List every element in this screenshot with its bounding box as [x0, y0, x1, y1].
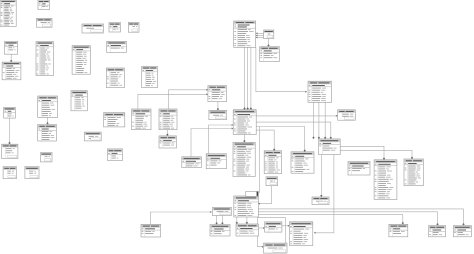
wire box36 to box40	[340, 150, 412, 159]
arrow box35 to box36 b	[318, 137, 320, 139]
wire box54 to box53	[150, 212, 211, 224]
arrow box46 to box50	[262, 246, 264, 248]
arrow box54 to box53	[210, 211, 212, 213]
table T43 TB_OP_STOCK	[264, 151, 281, 174]
wire box33 to box30	[209, 125, 234, 154]
arrow box20 to box30 c	[250, 107, 252, 109]
arrow box27 to box28	[206, 89, 208, 91]
table T11 TB_CM_MBR_HIST	[38, 125, 57, 142]
wire box51 to box47	[259, 227, 265, 229]
wire box45 to box46	[258, 186, 271, 204]
table T8 TB_CM_AUTH_MENU	[2, 62, 21, 80]
table T58 TB_OP_SHIP_LOG	[453, 226, 471, 237]
table T12 TB_CM_DEPT_DTL	[2, 144, 18, 158]
wire box47 to box49	[282, 225, 290, 227]
arrow box10 to box12	[8, 142, 10, 144]
table T30 TB_OP_PROD_MST	[233, 110, 256, 135]
table T15 TB_CM_QNA	[25, 167, 39, 179]
wire box36 to box59	[320, 155, 322, 197]
arrow box53 to box52 a	[215, 222, 217, 224]
table T20 TB_OP_CONTRACT	[234, 21, 256, 47]
table T54 TB_OP_EQP_GRP	[141, 224, 161, 237]
arrow box46 to box56	[402, 222, 404, 224]
table T25 TB_CM_SCHD	[142, 66, 158, 87]
wire box20 to box21 b	[256, 34, 264, 36]
table T38 TB_OP_DELIVER	[348, 162, 370, 176]
wire box20 to box21 c	[256, 36, 264, 38]
wire box35 to box36 b	[318, 102, 320, 139]
wire box20 to box30 b	[247, 47, 249, 109]
arrow box51 to box47	[263, 227, 265, 229]
wire box46 to box57	[258, 212, 437, 226]
wire box46 to box56	[258, 215, 403, 225]
arrow box36 to box49	[314, 232, 316, 234]
wire box27 to box28	[169, 90, 208, 109]
wire box20 to box35	[256, 47, 307, 91]
wire box30 to box36	[256, 122, 331, 139]
table T10 TB_CM_DEPT	[4, 107, 16, 118]
table T7 TB_CM_MBR_INF	[36, 42, 54, 76]
wire box6 to box8	[10, 54, 12, 62]
arrow box30 to box41	[304, 149, 306, 151]
table T65 TB_CM_BBS_CMT	[104, 113, 125, 127]
wire box30 to box46	[259, 127, 261, 194]
table T37 TB_OP_UNIT	[338, 110, 356, 120]
table T1 TB_CM_USER_INF	[0, 0, 16, 26]
table T3 TB_CM_GRP_CD	[36, 18, 52, 27]
arrow box6 to box8	[10, 60, 12, 62]
table T21 TB_OP_CD	[264, 30, 274, 39]
wire box32 to box30	[191, 129, 233, 157]
wire box36 to box49	[314, 155, 334, 233]
wire box46 to box58	[258, 209, 463, 226]
table T31 TB_OP_ITEM_C	[159, 136, 177, 148]
table T50 TB_OP_RSLT_SUB	[264, 243, 288, 253]
table T16 TB_CM_BBS	[72, 46, 90, 74]
table T46 TB_OP_RESULT	[234, 196, 258, 217]
table T36 TB_OP_ORDER_DTL	[319, 139, 341, 155]
arrow box30 to box36	[330, 137, 332, 139]
table T14 TB_CM_FAQ	[3, 167, 16, 179]
arrow box20 to box21 c	[256, 36, 258, 38]
table T17 TB_CM_BBS_CONT	[107, 41, 127, 52]
arrow box20 to box30 a	[243, 107, 245, 109]
table T23 TB_CM_STATS	[106, 68, 124, 88]
table T27 TB_OP_ITEM_B	[159, 109, 177, 130]
note box above T46	[246, 191, 258, 196]
table T41 TB_OP_WHOUSE	[291, 152, 314, 173]
arrow box26 to box28	[206, 93, 208, 95]
wire box9 to box11	[47, 117, 49, 124]
table T57 TB_OP_SHIP_B	[429, 226, 446, 237]
arrow box47 to box49	[288, 225, 290, 227]
wire box10 to box12	[9, 118, 11, 144]
arrow box20 to box30 b	[247, 107, 249, 109]
arrow box20 to box21 a	[256, 32, 258, 34]
wire box53 to box52 a	[216, 216, 218, 225]
wire box20 to box30 c	[250, 47, 252, 109]
wire box21 to box22	[268, 39, 270, 47]
arrow box33 to box30	[232, 124, 234, 126]
table T63 TB_CM_CONF	[84, 132, 101, 141]
table T47 TB_OP_QC_DTL	[265, 222, 282, 232]
wire box20 to box21 a	[256, 32, 264, 34]
table T45 TB_OP_LOT	[266, 177, 278, 186]
arrow box30 to box37	[336, 115, 338, 117]
arrow box36 to box59	[320, 195, 322, 197]
wire box30 to box37	[256, 115, 337, 117]
table T53 TB_OP_EQUIP	[212, 207, 231, 215]
wire box53 to box52 b	[221, 216, 223, 225]
arrow box36 to box40	[411, 157, 413, 159]
table T5 TB_CM_MENU	[109, 23, 121, 33]
arrow box35 to box36 a	[312, 137, 314, 139]
wire box46 to box50	[258, 217, 264, 247]
wire box28 to box29	[217, 102, 219, 111]
arrow box30 to box43	[273, 148, 275, 150]
table T52 TB_OP_EQP_DTL	[210, 225, 230, 237]
table T59 TB_OP_QC_MST	[312, 197, 329, 205]
arrow box36 to box39	[383, 157, 385, 159]
wire box46 to box51 b	[246, 217, 248, 224]
table T18 TB_CM_LOG	[128, 22, 139, 32]
table T64 TB_CM_POPUP	[107, 149, 122, 161]
arrow box9 to box11	[46, 122, 48, 124]
wire box30 to box34	[243, 135, 245, 143]
wire box35 to box36 c	[324, 102, 326, 139]
table T33 TB_OP_PLAN_SUB	[206, 154, 226, 169]
table T6 TB_CM_AUTH	[4, 42, 17, 55]
table T24 TB_CM_BBS_ANS	[71, 91, 87, 111]
table T56 TB_OP_SHIP_A	[389, 224, 408, 237]
table T39 TB_OP_SHIP_MST	[374, 160, 397, 200]
arrow box20 to box21 b	[256, 34, 258, 36]
wire box35 to box36 a	[313, 102, 315, 139]
arrow box46 to box57	[436, 223, 438, 225]
wire box27 to box31	[166, 130, 168, 136]
arrow box21 to box22	[267, 44, 269, 46]
arrow box32 to box30	[232, 128, 234, 130]
wire box36 to box39	[340, 146, 384, 160]
wire box46 to box51 a	[236, 217, 238, 224]
arrow box30 to box34	[243, 140, 245, 142]
arrow box45 to box46	[258, 203, 260, 205]
table T32 TB_OP_ITEM_SUB	[182, 157, 202, 168]
wire box30 to box41	[256, 127, 305, 152]
table T9 TB_CM_MBR_DTL	[38, 96, 58, 117]
arrow box35 to box36 c	[324, 137, 326, 139]
table T34 TB_OP_PROD_DTL	[233, 142, 255, 176]
arrow box46 to box58	[462, 223, 464, 225]
table T13 TB_CM_PW	[41, 153, 53, 162]
table T26 TB_OP_ITEM_A	[132, 109, 152, 130]
table T4 TB_CM_BBS_FILE	[82, 24, 104, 33]
table T49 TB_OP_QC_RSLT	[289, 222, 312, 246]
table T51 TB_OP_RSLT_DTL	[236, 224, 259, 236]
arrow box27 to box31	[166, 134, 168, 136]
arrow box46 to box51 b	[246, 222, 248, 224]
table T29 TB_OP_PLAN_DTL	[209, 110, 227, 119]
wire box26 to box28	[138, 94, 208, 109]
arrow box53 to box52 b	[221, 222, 223, 224]
arrow box20 to box35	[305, 91, 307, 93]
table T40 TB_OP_SHIP_DTL	[404, 159, 424, 186]
arrow box28 to box29	[217, 108, 219, 110]
table T28 TB_OP_PLAN	[208, 86, 227, 102]
wire box46 to box50 loop	[258, 218, 286, 243]
wire box20 to box30 a	[244, 47, 246, 109]
table T22 TB_OP_CONT_DTL	[260, 47, 280, 62]
wire box30 to box43	[256, 130, 274, 151]
table T35 TB_OP_ORDER_MST	[308, 81, 332, 102]
arrow box46 to box51 a	[236, 222, 238, 224]
table T2 TB_CM_CD	[38, 0, 50, 10]
